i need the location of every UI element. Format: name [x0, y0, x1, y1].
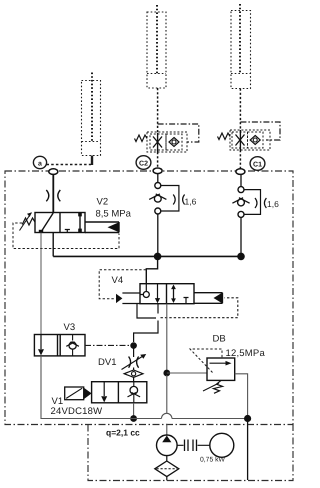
wire: cylinder right outlet dashed	[239, 89, 241, 131]
wire: node a down to orifice and valve V2	[52, 175, 54, 213]
wire: V4 port A down-right	[137, 304, 156, 318]
DB pilot dashed	[190, 349, 222, 373]
V4 envelope dashed	[99, 270, 146, 299]
wire: DB outlet to drain	[235, 374, 248, 415]
check-throttle assembly C2	[149, 183, 184, 215]
wire: V4 port B to DV1	[134, 304, 158, 342]
V3 right position check	[69, 342, 76, 349]
cylinder right (C1)	[231, 4, 251, 89]
V2 blocked port T	[65, 230, 70, 233]
svg-text:V3: V3	[64, 322, 76, 333]
svg-text:DB: DB	[213, 334, 226, 345]
wire: dashed line to port a	[47, 164, 92, 166]
wire: main pressure line	[53, 255, 241, 257]
V4 drain dashed to right actuator	[161, 298, 238, 318]
orifice above V2	[46, 190, 60, 201]
svg-text:12,5MPa: 12,5MPa	[226, 348, 266, 359]
V1 solenoid	[65, 387, 84, 400]
motor	[210, 433, 234, 457]
wire: V4 to pump riser	[166, 304, 168, 371]
V3 pilot dash-dot to DV1	[85, 344, 130, 346]
valve V3	[34, 335, 85, 356]
junction dot main/C1	[237, 253, 245, 261]
pump	[157, 435, 178, 456]
DB spring	[214, 380, 223, 393]
wire: drain to tank	[247, 419, 249, 481]
port label C2	[136, 156, 151, 170]
V4 left pilot actuator	[116, 294, 122, 303]
spring of middle block	[135, 135, 148, 142]
junction dot pressure/DB	[163, 370, 170, 377]
port label a	[33, 156, 46, 168]
wire: block to boundary node	[157, 152, 159, 168]
port label C1	[250, 157, 265, 171]
wire: pump riser	[166, 375, 168, 435]
wire: junction to DB	[167, 372, 207, 374]
counterbalance valve block middle	[147, 132, 187, 152]
V1 left position flow arrow	[103, 382, 105, 396]
svg-text:q=2,1 cc: q=2,1 cc	[106, 428, 140, 438]
svg-text:C1: C1	[253, 161, 262, 168]
filter	[166, 456, 168, 461]
wire: V2 port to main line	[52, 233, 54, 257]
node C1	[236, 169, 245, 175]
node C2	[153, 168, 162, 174]
power unit boundary box	[88, 425, 293, 481]
svg-text:24VDC18W: 24VDC18W	[51, 406, 103, 417]
wire: cylinder left outlet	[91, 156, 93, 166]
wire: node C2 to check assembly to main line	[157, 174, 159, 183]
pilot line middle block	[158, 124, 199, 142]
wire: V3 down and drain line	[41, 356, 162, 419]
svg-text:8,5 MPa: 8,5 MPa	[96, 209, 132, 220]
valve V1	[92, 382, 147, 403]
wire: cylinder middle outlet dashed	[157, 88, 159, 133]
node a (boundary crossing)	[49, 169, 58, 175]
V4 right position: double arrow + blocked port	[173, 288, 175, 301]
V1 right position check	[130, 386, 138, 394]
V3 left position flow arrow	[40, 335, 42, 350]
wire: V1 to drain line	[133, 403, 135, 419]
cylinder left (port a)	[82, 73, 101, 156]
wire: main line to V4 inlet	[146, 256, 157, 283]
svg-text:0,75 kW: 0,75 kW	[200, 457, 226, 464]
valve V2	[35, 213, 85, 233]
wire: V2 to V3	[40, 233, 42, 335]
DV1 bypass check diamond	[124, 370, 143, 377]
svg-text:DV1: DV1	[98, 357, 116, 368]
wire: right block to boundary node	[239, 150, 241, 169]
pilot line right block	[240, 122, 280, 140]
junction dot DB/drain	[244, 415, 251, 422]
V2 solenoid actuator	[85, 222, 119, 233]
cylinder middle (C2)	[147, 5, 166, 88]
manifold boundary box	[5, 171, 293, 425]
V4 right pilot actuator	[214, 293, 223, 304]
wire: node C1 to check assembly to main line	[240, 175, 242, 187]
spring of right block	[218, 133, 231, 140]
V2 adjustable spring	[22, 218, 35, 225]
svg-text:1,6: 1,6	[185, 197, 197, 207]
junction dot main/C2	[154, 253, 162, 261]
throttle valve DV1	[133, 346, 135, 357]
junction dot V1/drain	[130, 415, 137, 422]
wire: drain line bump over pump riser	[162, 413, 172, 418]
valve V4	[140, 284, 194, 304]
junction dot DV1	[130, 342, 137, 349]
svg-text:V2: V2	[97, 197, 109, 208]
V2 envelope dashed	[13, 223, 119, 249]
V2 port squares	[39, 230, 43, 233]
svg-text:V4: V4	[112, 275, 124, 286]
relief valve DB	[207, 358, 235, 380]
svg-text:C2: C2	[139, 160, 148, 167]
coupling	[177, 444, 210, 446]
V4 left position: ball + path	[143, 292, 149, 298]
svg-text:1,6: 1,6	[267, 199, 279, 209]
svg-text:a: a	[38, 160, 42, 167]
counterbalance valve block right	[230, 130, 270, 150]
check-throttle assembly C1	[232, 187, 266, 218]
